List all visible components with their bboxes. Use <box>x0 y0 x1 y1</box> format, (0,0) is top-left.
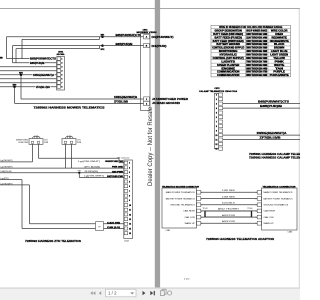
connector CALAMP <box>214 93 222 151</box>
page right border <box>298 9 300 288</box>
wire L2 power ground <box>0 167 124 169</box>
svg-text:2: 2 <box>216 99 217 101</box>
terminator TP40 box <box>96 222 104 231</box>
wire 1WIRE(RED/WHT)A row <box>0 74 57 76</box>
svg-text:A923 PUR: A923 PUR <box>222 214 236 217</box>
connector bracket box <box>162 188 202 228</box>
wire calamp 1wire <box>223 134 300 136</box>
svg-text:9: 9 <box>216 131 217 133</box>
svg-text:TP-41: TP-41 <box>203 208 208 210</box>
toolbar background <box>0 288 300 300</box>
wire BP1 to CB04M pin 1 <box>103 36 144 38</box>
svg-text:ZF7(BLU)/B: ZF7(BLU)/B <box>114 102 128 104</box>
label ZF1(BLU)/A <box>36 85 51 89</box>
wire ZF1(BLU)/A row <box>0 86 57 88</box>
connector CB04 left <box>57 57 65 91</box>
toolbar last page button <box>150 291 155 295</box>
connector CB04 header <box>56 50 65 56</box>
wire row3 <box>0 66 57 68</box>
wire row6 <box>0 78 57 80</box>
svg-text:A922 YEL/WHT: A922 YEL/WHT <box>218 208 240 211</box>
svg-text:3: 3 <box>129 172 130 174</box>
wire calamp b65 pur <box>223 107 300 109</box>
svg-text:7265092 HARNESS MOWER TELEMATI: 7265092 HARNESS MOWER TELEMATICS <box>34 106 105 109</box>
wire B65 PUR lower loop <box>13 46 103 63</box>
wire adaptor row 1 <box>201 191 257 193</box>
svg-text:7265093 HARNESS TELEMATICS ADA: 7265093 HARNESS TELEMATICS ADAPTOR <box>206 237 274 241</box>
svg-text:Lgt(YEL/WHT): Lgt(YEL/WHT) <box>1 159 13 162</box>
svg-text:7: 7 <box>129 191 130 193</box>
svg-text:13: 13 <box>129 219 131 221</box>
twisted pair bar TP-41 <box>203 208 208 217</box>
svg-text:Lgt(YEL/WHT): Lgt(YEL/WHT) <box>1 183 13 186</box>
svg-text:4: 4 <box>61 70 62 73</box>
connector ZTR <box>124 160 133 239</box>
svg-text:BATTERY POWER TELEMATICS: BATTERY POWER TELEMATICS <box>166 197 196 200</box>
svg-text:Dealer Copy -- Not for Resale: Dealer Copy -- Not for Resale <box>148 106 154 186</box>
label edge stub <box>0 57 3 59</box>
svg-text:5: 5 <box>61 75 62 77</box>
node GPT <box>77 171 82 174</box>
svg-text:7: 7 <box>216 122 217 124</box>
node BP5 <box>19 72 23 76</box>
svg-text:7265091 HARNESS CALAMP TELEM: 7265091 HARNESS CALAMP TELEM <box>249 153 300 156</box>
svg-text:13: 13 <box>215 149 217 151</box>
svg-text:14: 14 <box>129 223 131 226</box>
page top border <box>0 8 300 10</box>
svg-text:2 of 2: 2 of 2 <box>184 278 190 280</box>
node BP1 <box>101 34 105 38</box>
svg-text:12: 12 <box>129 214 131 216</box>
svg-text:ADC05A: ADC05A <box>56 53 65 56</box>
svg-text:11: 11 <box>129 210 131 212</box>
wire L1 unswitched feed <box>0 161 33 163</box>
svg-text:ZF7(BLU)/B: ZF7(BLU)/B <box>260 138 282 140</box>
svg-text:6: 6 <box>216 117 217 119</box>
wire fuse F1 left lead <box>32 144 34 162</box>
svg-text:12: 12 <box>215 144 217 146</box>
svg-text:MAIN POWER TELEMATICS: MAIN POWER TELEMATICS <box>166 191 196 194</box>
svg-text:CALAMP TELEMATICS CB04 C014: CALAMP TELEMATICS CB04 C014 <box>199 90 238 93</box>
svg-text:J4 MAIN GROUND: J4 MAIN GROUND <box>152 102 180 105</box>
svg-text:BP5: BP5 <box>19 72 23 74</box>
svg-text:2: 2 <box>129 167 130 169</box>
svg-text:PWR: PWR <box>44 142 49 144</box>
wire twisted pair emphasis CAN HIGH <box>205 210 252 212</box>
svg-text:A924 PUR: A924 PUR <box>222 220 236 223</box>
toolbar first page button <box>90 291 95 295</box>
svg-text:IGN PWR: IGN PWR <box>112 171 124 173</box>
svg-text:4: 4 <box>129 176 130 179</box>
wire adaptor row 4 <box>201 210 257 212</box>
svg-text:CB04: CB04 <box>58 50 64 53</box>
svg-text:6: 6 <box>129 186 130 188</box>
svg-text:7: 7 <box>61 83 62 85</box>
svg-text:C0B3: C0B3 <box>288 232 293 234</box>
wire color code table <box>211 25 291 77</box>
connector CB04M mid <box>141 34 151 111</box>
toolbar refresh icon <box>168 291 172 295</box>
svg-text:7265092 HARNESS ZTR TELEMATICS: 7265092 HARNESS ZTR TELEMATICS <box>25 240 81 243</box>
watermark bar <box>155 0 160 287</box>
svg-text:MAIN POWER TELEMATICS: MAIN POWER TELEMATICS <box>264 191 294 194</box>
svg-text:1050 BLK: 1050 BLK <box>222 203 236 205</box>
svg-text:1WIRE(RED/WHT)B: 1WIRE(RED/WHT)B <box>114 97 137 99</box>
wire L5 CAN LO route <box>0 180 124 229</box>
label CB04 row1 <box>30 56 57 60</box>
wire GPT branch to pin4 <box>79 173 124 178</box>
svg-text:CAN (HI): CAN (HI) <box>107 221 121 224</box>
svg-text:FUSE PWR: FUSE PWR <box>19 142 29 144</box>
wire adaptor row 5 <box>201 216 257 218</box>
wire row7 <box>0 82 57 84</box>
svg-text:COMMUNICATION: COMMUNICATION <box>217 74 240 77</box>
svg-text:B65(PUR)/B: B65(PUR)/B <box>116 44 133 46</box>
svg-text:J1939(B): J1939(B) <box>84 171 99 173</box>
svg-text:BATTERY POWER TELEMATICS: BATTERY POWER TELEMATICS <box>264 197 294 200</box>
svg-text:D4(PUR): D4(PUR) <box>152 45 167 48</box>
svg-text:1 / 2: 1 / 2 <box>108 291 117 296</box>
svg-text:16: 16 <box>129 233 131 235</box>
svg-text:TP-40: TP-40 <box>247 208 252 210</box>
connector adapter box <box>256 188 297 230</box>
svg-text:Lgt(YEL/WHT): Lgt(YEL/WHT) <box>78 160 101 163</box>
toolbar prev page button <box>99 291 101 295</box>
svg-text:1182 RED: 1182 RED <box>222 190 236 192</box>
svg-text:Lgt(YEL/WHT): Lgt(YEL/WHT) <box>1 165 13 168</box>
label fuse F2 <box>77 140 82 144</box>
svg-text:8: 8 <box>129 196 130 198</box>
svg-text:C8PX: C8PX <box>214 88 220 90</box>
svg-text:GROUND TELEMATICS: GROUND TELEMATICS <box>264 204 289 207</box>
wire BP6 branch to ground pin <box>15 87 144 104</box>
wire adaptor row 2 <box>201 198 257 200</box>
svg-text:2: 2 <box>61 63 62 65</box>
svg-text:B65(PUR/WHT)CTS: B65(PUR/WHT)CTS <box>30 59 57 61</box>
svg-text:3: 3 <box>216 104 217 106</box>
svg-text:BP2: BP2 <box>101 49 105 51</box>
svg-text:PWR: PWR <box>77 142 82 144</box>
toolbar pages icon <box>160 289 166 295</box>
wire fuse F1 right lead to pin1 <box>39 144 124 162</box>
svg-text:UNSWITCHED PWR: UNSWITCHED PWR <box>105 161 124 163</box>
svg-text:J4 UNSWITCHED POWER: J4 UNSWITCHED POWER <box>152 98 188 101</box>
svg-text:WAKE UP: WAKE UP <box>185 222 196 225</box>
svg-text:BP6: BP6 <box>13 84 17 86</box>
label 1WIRE(RED/WHT)A <box>33 73 55 77</box>
svg-text:8: 8 <box>61 87 62 89</box>
svg-text:ZF1(BLU)/A: ZF1(BLU)/A <box>36 86 50 89</box>
svg-text:3: 3 <box>61 67 62 69</box>
svg-text:B65(PUR)/B: B65(PUR)/B <box>30 63 45 65</box>
svg-text:CAN (LO): CAN (LO) <box>107 226 121 229</box>
wire branch to BP1 <box>22 37 100 59</box>
svg-text:1WIRE(RED/WHT)A: 1WIRE(RED/WHT)A <box>257 132 287 135</box>
svg-text:Lgt(YEL/WHT): Lgt(YEL/WHT) <box>84 175 105 178</box>
svg-text:WAKE UP: WAKE UP <box>264 222 275 225</box>
svg-text:MOWER V1NH: MOWER V1NH <box>137 32 158 34</box>
svg-text:1: 1 <box>61 59 62 61</box>
svg-text:6: 6 <box>61 79 62 81</box>
svg-text:DkB(YEL/B): DkB(YEL/B) <box>1 171 12 173</box>
toolbar next page button <box>143 291 146 295</box>
connector CALAMP header <box>199 88 238 93</box>
svg-text:B65(PUR/WHT)CTS: B65(PUR/WHT)CTS <box>258 102 290 104</box>
svg-text:10: 10 <box>129 205 131 207</box>
wire calamp zf7 <box>223 139 300 141</box>
svg-text:D4(PUR/WHT): D4(PUR/WHT) <box>152 36 174 39</box>
wire L6 CAN HI route <box>0 185 124 224</box>
wire fuse F2 right lead <box>71 144 73 168</box>
wire BP2 to CB04M pin 2 <box>103 45 144 47</box>
svg-text:PWR GND: PWR GND <box>112 167 124 169</box>
svg-text:GPT BLK(B): GPT BLK(B) <box>84 166 101 168</box>
fuse F1 unswitched <box>29 136 43 145</box>
wire BP5 branch to battery power pin <box>21 75 144 99</box>
svg-text:CAN LOW: CAN LOW <box>264 216 274 219</box>
wire fuse F2 left lead <box>65 144 67 168</box>
node BP2 <box>101 44 105 51</box>
svg-text:1183 RED: 1183 RED <box>222 196 236 198</box>
wire adaptor row 6 <box>201 222 257 224</box>
wire L3 ign power <box>0 172 124 174</box>
svg-text:1WIRE(RED/WHT)A: 1WIRE(RED/WHT)A <box>33 74 54 77</box>
svg-text:SWITCHED PWR: SWITCHED PWR <box>107 176 124 178</box>
wire row4 <box>0 70 57 72</box>
wire calamp battery pwr <box>223 103 300 105</box>
svg-text:B65(PUR/WHT)CTS: B65(PUR/WHT)CTS <box>116 35 142 37</box>
twisted pair bar TP-40 <box>247 208 252 217</box>
toolbar page input <box>106 289 137 297</box>
svg-text:5: 5 <box>129 181 130 183</box>
svg-text:10: 10 <box>215 135 217 137</box>
svg-text:1: 1 <box>129 163 130 165</box>
wire B65 PUR/WHT upper loop <box>7 37 103 59</box>
node BP6 <box>13 84 17 88</box>
svg-text:C0B1: C0B1 <box>166 230 171 232</box>
svg-text:WIRE ID NUMBERS FOR COLORS AND: WIRE ID NUMBERS FOR COLORS AND NUMBER RA… <box>219 26 283 29</box>
svg-text:PURPLE/WHITE: PURPLE/WHITE <box>270 74 289 77</box>
svg-text:7265092 HARNESS CALAMP TELEM: 7265092 HARNESS CALAMP TELEM <box>249 157 300 160</box>
svg-text:9: 9 <box>129 200 130 202</box>
wire branch to BP2 <box>16 46 100 63</box>
svg-text:Lgt(PK): Lgt(PK) <box>1 177 10 180</box>
label CB04 row2 <box>30 61 46 65</box>
connector CB04M header <box>137 28 158 34</box>
wire twisted pair emphasis CAN LOW <box>205 216 252 218</box>
svg-text:CAN HIGH: CAN HIGH <box>183 210 195 213</box>
svg-text:9800 THROUGH 9999: 9800 THROUGH 9999 <box>246 74 268 77</box>
label fuse F1 <box>16 140 49 144</box>
svg-text:BP1: BP1 <box>101 34 105 36</box>
svg-text:15: 15 <box>129 228 131 230</box>
svg-text:CAN LOW: CAN LOW <box>185 216 195 219</box>
svg-text:B65(PUR)/B: B65(PUR)/B <box>260 106 283 108</box>
svg-text:CAN HIGH: CAN HIGH <box>264 210 276 213</box>
fuse F2 switched <box>62 136 76 145</box>
svg-text:GROUND TELEMATICS: GROUND TELEMATICS <box>170 204 195 207</box>
wire adaptor row 3 <box>201 204 257 206</box>
